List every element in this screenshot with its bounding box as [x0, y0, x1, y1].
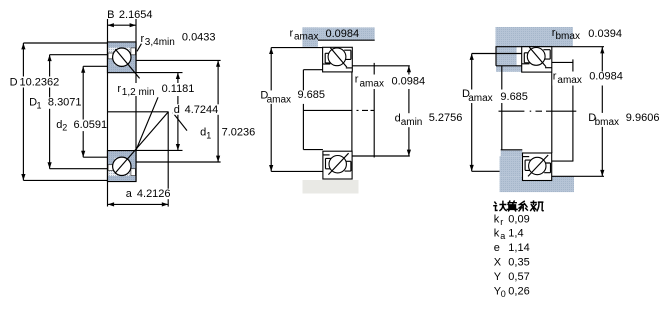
dimension D1 line: [48, 55, 52, 169]
reflected contact stub: [173, 113, 187, 131]
d1 bottom leader: [136, 161, 221, 163]
svg-text:9.9606: 9.9606: [626, 112, 660, 124]
dimension B line: [108, 23, 137, 27]
svg-text:amax: amax: [267, 94, 291, 105]
table row ka 1,4: [494, 228, 524, 242]
dimension d1 line: [216, 60, 220, 162]
svg-text:2: 2: [62, 123, 67, 133]
svg-text:a: a: [126, 188, 133, 200]
right face connector: [551, 72, 553, 153]
svg-text:e: e: [494, 242, 500, 254]
svg-text:0.1181: 0.1181: [162, 83, 195, 95]
svg-text:D: D: [10, 77, 18, 89]
svg-text:1,14: 1,14: [508, 242, 529, 254]
r1,2 leader: [136, 97, 158, 150]
svg-text:1: 1: [37, 100, 42, 110]
table row kr 0,09: [494, 213, 530, 227]
svg-text:8.3071: 8.3071: [48, 97, 82, 109]
label a 4.2126: [125, 188, 171, 200]
svg-text:r: r: [355, 74, 359, 86]
svg-text:amax: amax: [468, 93, 492, 104]
svg-text:X: X: [494, 257, 502, 269]
svg-text:bmax: bmax: [595, 117, 619, 128]
dimension D leaders: [23, 42, 107, 44]
dimension a line: [108, 202, 169, 206]
label ramax top (middle): [290, 27, 360, 42]
label r1,2min 0.1181: [116, 83, 197, 98]
right bottom strip: [500, 176, 574, 192]
svg-text:3,4min: 3,4min: [145, 37, 175, 48]
middle figure housing abutment strip: [302, 27, 374, 40]
right upper ledge: [496, 66, 522, 72]
svg-text:r: r: [117, 83, 121, 95]
svg-text:r: r: [500, 217, 503, 227]
Damax top leader (right): [472, 53, 522, 55]
dimension D1 leaders: [50, 54, 108, 56]
svg-text:0.0984: 0.0984: [392, 75, 426, 87]
middle shaft outline: [303, 70, 323, 150]
right lower ledge: [501, 150, 523, 156]
svg-text:amax: amax: [557, 75, 581, 86]
label Damax (middle): [259, 89, 325, 106]
bearing right face line: [135, 19, 137, 182]
svg-text:k: k: [494, 213, 500, 225]
svg-text:bmax: bmax: [556, 31, 580, 42]
label d 4.7244: [173, 104, 226, 116]
svg-text:1: 1: [206, 130, 211, 140]
label r3,4min 0.0433: [141, 31, 216, 47]
label B 2.1654: [107, 9, 152, 21]
middle upper bearing section: [323, 47, 353, 72]
label D 10.2362: [9, 77, 63, 89]
strip bottom border and Dbmax top leader: [496, 46, 605, 48]
svg-text:Y: Y: [494, 271, 502, 283]
right shoulder line lower: [501, 149, 523, 151]
damin dimension line: [407, 66, 411, 156]
shadow under middle lower section: [303, 180, 359, 194]
Damax dimension line (right): [470, 54, 474, 172]
table header 计算系数 (drawn strokes): [494, 201, 543, 211]
svg-text:4.7244: 4.7244: [185, 104, 219, 116]
ramax bottom leader (right): [552, 160, 574, 162]
svg-text:0.0984: 0.0984: [589, 70, 623, 82]
right figure sleeve flange strip: [496, 27, 573, 47]
svg-text:0,57: 0,57: [508, 271, 529, 283]
svg-text:4.2126: 4.2126: [137, 188, 171, 200]
table row Y0 0,26: [494, 285, 530, 299]
bearing section lower (left hatched figure): [108, 151, 137, 182]
svg-text:k: k: [494, 228, 500, 240]
bore bottom leader: [136, 149, 183, 151]
label d2 6.0591: [55, 119, 107, 133]
right shoulder line upper: [496, 65, 522, 67]
table row e 1,14: [494, 242, 530, 254]
ramax axis line (right): [572, 59, 574, 161]
dimension d2 leaders: [83, 65, 107, 67]
svg-text:10.2362: 10.2362: [20, 77, 60, 89]
middle figure abutment chunk: [302, 27, 318, 47]
svg-text:9.685: 9.685: [500, 91, 528, 103]
d1 top leader: [136, 59, 221, 61]
label d1 7.0236: [200, 127, 255, 141]
svg-text:7.0236: 7.0236: [222, 127, 256, 139]
right shaft line: [501, 66, 503, 150]
ramax top leader (right): [552, 61, 574, 63]
centerline axis: [108, 111, 169, 113]
dimension d2 line: [81, 66, 85, 157]
svg-text:d: d: [200, 127, 206, 139]
right upper bearing section: [522, 47, 552, 72]
bore top leader: [136, 72, 183, 74]
Dbmax dimension line: [600, 47, 604, 176]
ball contact diagonal upper: [115, 49, 139, 78]
damin axis line: [373, 63, 375, 158]
table row X 0,35: [494, 257, 530, 269]
Damax dimension line (middle): [269, 48, 273, 172]
svg-text:0,35: 0,35: [508, 257, 529, 269]
right lower band: [500, 156, 522, 176]
right upper sleeve band: [496, 47, 517, 66]
a extension line: [167, 112, 169, 207]
bearing section upper (left hatched figure): [108, 42, 137, 73]
middle right face connector: [351, 72, 353, 151]
svg-text:r: r: [290, 27, 294, 39]
label Damax 9.685 (right): [461, 88, 529, 104]
svg-text:r: r: [553, 70, 557, 82]
svg-text:0.0984: 0.0984: [326, 28, 360, 40]
svg-text:amax: amax: [294, 31, 318, 42]
bearing left face line: [107, 19, 109, 207]
svg-text:a: a: [500, 231, 505, 241]
svg-text:amax: amax: [360, 79, 384, 90]
middle axis centerline: [303, 109, 374, 111]
label Dbmax 9.9606: [587, 112, 661, 128]
shoulder top leader (middle right): [352, 65, 410, 67]
label ramax 0.0984 (right): [552, 70, 622, 86]
label D1 8.3071: [28, 97, 81, 111]
table row Y 0,57: [494, 271, 530, 283]
right axis centerline: [499, 110, 577, 112]
label ramax mid (middle): [354, 74, 427, 90]
right lower bearing section: [523, 153, 552, 181]
svg-text:0.0394: 0.0394: [588, 28, 622, 40]
svg-text:0,09: 0,09: [508, 213, 529, 225]
svg-text:amin: amin: [401, 117, 423, 128]
svg-text:5.2756: 5.2756: [429, 112, 463, 124]
svg-text:1,4: 1,4: [508, 228, 523, 240]
strip bottom border: [318, 39, 375, 41]
svg-text:0,26: 0,26: [508, 285, 529, 297]
svg-text:9.685: 9.685: [298, 89, 326, 101]
dimension D line: [21, 43, 25, 180]
Damax bottom leader (right): [472, 170, 500, 172]
leader r3,4: [137, 44, 141, 52]
contact line through lower ball: [115, 112, 169, 174]
Damax bottom leader (middle): [271, 170, 323, 172]
svg-text:0: 0: [501, 289, 506, 299]
svg-text:B: B: [107, 9, 114, 21]
label damin (middle): [394, 112, 464, 128]
svg-text:0.0433: 0.0433: [182, 31, 216, 43]
svg-text:2.1654: 2.1654: [119, 9, 153, 21]
svg-text:1,2 min: 1,2 min: [122, 87, 155, 98]
Dbmax bottom leader: [552, 175, 604, 177]
svg-text:d: d: [174, 104, 180, 116]
Damax top leader (middle): [271, 47, 322, 49]
svg-text:6.0591: 6.0591: [74, 119, 108, 131]
shoulder bottom leader (middle right): [352, 155, 410, 157]
middle lower bearing section: [323, 151, 352, 179]
label rbmax 0.0394: [552, 27, 622, 42]
right sleeve face upper: [495, 47, 497, 66]
dimension d line: [176, 73, 180, 151]
